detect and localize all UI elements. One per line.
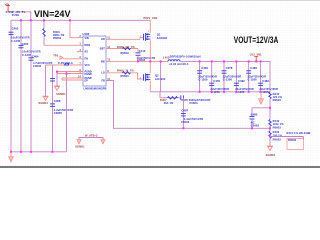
svg-text:C404: C404 xyxy=(32,55,39,59)
svg-text:C0805: C0805 xyxy=(54,111,63,115)
svg-text:C0603: C0603 xyxy=(33,64,42,68)
svg-text:C-1206: C-1206 xyxy=(11,39,21,43)
resistor RG2 xyxy=(123,72,131,74)
svg-text:C0603: C0603 xyxy=(189,101,198,105)
wire C470 to FB bus xyxy=(182,98,184,129)
resistor RBST xyxy=(123,47,131,49)
wire C404 column xyxy=(30,20,32,152)
top edge line xyxy=(0,0,320,2)
wire Q2 source xyxy=(149,81,151,92)
junction dots cap bank xyxy=(199,60,262,92)
svg-text:R0603: R0603 xyxy=(273,98,282,102)
svg-text:R441 1% HD-019B: R441 1% HD-019B xyxy=(287,131,311,135)
capacitor C404 xyxy=(29,58,34,60)
svg-text:Q2: Q2 xyxy=(155,73,159,77)
svg-text:EN: EN xyxy=(85,58,89,61)
svg-text:SS: SS xyxy=(85,50,89,53)
svg-text:R0603: R0603 xyxy=(121,74,130,78)
ground arrow left xyxy=(77,140,82,144)
svg-text:FB: FB xyxy=(101,79,105,82)
svg-text:SGND1: SGND1 xyxy=(75,145,85,149)
svg-text:LO: LO xyxy=(101,72,105,75)
wire SS stub pin4 xyxy=(77,51,83,53)
svg-text:C0603: C0603 xyxy=(251,124,260,128)
junction dots divider xyxy=(182,107,271,138)
capacitor C410 boot xyxy=(136,53,141,55)
svg-text:22uF/35V/X5R: 22uF/35V/X5R xyxy=(235,87,254,91)
svg-text:R0603: R0603 xyxy=(53,36,62,40)
svg-text:PGND: PGND xyxy=(85,73,92,76)
wire LO to Q2 gate xyxy=(106,73,143,79)
svg-text:C400: C400 xyxy=(201,66,208,70)
svg-text:U408: U408 xyxy=(83,32,90,36)
capacitor C480 xyxy=(251,108,253,117)
wire SW bus xyxy=(106,60,168,62)
svg-text:C406: C406 xyxy=(54,99,61,103)
wire PGND return column xyxy=(66,72,68,152)
resistor R407 xyxy=(168,97,178,99)
wire PGND bus xyxy=(150,91,270,93)
wire FB routing xyxy=(106,81,270,129)
resistor R403 (RON) xyxy=(43,20,45,28)
wire bottom-left ground bus xyxy=(11,151,67,153)
capacitor C400 xyxy=(197,71,202,73)
svg-text:Q1: Q1 xyxy=(157,32,161,36)
svg-text:R408_GR_TN: R408_GR_TN xyxy=(117,45,135,49)
ground SGND1 (divider) xyxy=(267,146,273,150)
svg-text:R408_34_TN: R408_34_TN xyxy=(117,68,134,72)
op-amp U408 controller xyxy=(83,36,106,86)
svg-text:AO4932: AO4932 xyxy=(157,36,168,40)
wire top VIN bus xyxy=(11,19,150,21)
svg-text:3.3nF/50V/X7R: 3.3nF/50V/X7R xyxy=(184,117,203,121)
svg-text:P24V_U4B: P24V_U4B xyxy=(144,16,158,20)
junction dots left xyxy=(56,71,68,75)
capacitor C479 xyxy=(209,83,214,85)
svg-text:C478: C478 xyxy=(226,66,233,70)
svg-text:C492: C492 xyxy=(238,79,245,83)
ground SGND (left low) xyxy=(43,96,49,100)
capacitor C408 bypass xyxy=(50,79,55,81)
wire Q1 drain xyxy=(149,20,151,33)
svg-text:VIN: VIN xyxy=(85,37,89,40)
svg-text:C-1206: C-1206 xyxy=(22,53,32,57)
pin numbers xyxy=(78,35,111,81)
wire VCC pin7 xyxy=(46,64,84,66)
wire cap columns xyxy=(200,61,261,91)
wire VCC drop to ground xyxy=(45,65,47,96)
svg-text:C479: C479 xyxy=(213,79,220,83)
wire net tie xyxy=(79,138,103,140)
capacitor C492 xyxy=(234,83,239,85)
power flag VIN xyxy=(6,6,10,12)
bottom border xyxy=(0,166,320,168)
capacitor C470 xyxy=(181,95,184,100)
svg-text:VIN=24V: VIN=24V xyxy=(34,9,71,20)
connector P404 load xyxy=(270,136,304,138)
resistor R432 xyxy=(269,131,271,138)
svg-text:HO: HO xyxy=(101,38,105,41)
svg-text:C405: C405 xyxy=(22,42,29,46)
capacitor C478 xyxy=(222,71,227,73)
svg-text:R0603: R0603 xyxy=(273,138,282,142)
svg-text:SGND1: SGND1 xyxy=(39,101,49,105)
transistor Q2 xyxy=(144,73,151,81)
svg-text:LM5085MX/NOPB: LM5085MX/NOPB xyxy=(84,87,107,91)
wire EP pins xyxy=(62,77,83,79)
capacitor C406 xyxy=(50,104,55,106)
resistor R442 xyxy=(269,92,271,99)
resistor R440 xyxy=(269,120,271,127)
fuse F442 xyxy=(8,11,28,13)
svg-text:C410: C410 xyxy=(139,49,146,53)
svg-text:VOUT=12V/3A: VOUT=12V/3A xyxy=(234,35,279,45)
wire VOUT bus xyxy=(180,60,270,62)
wire BST corner down xyxy=(137,49,139,53)
capacitor C403 xyxy=(9,32,14,34)
svg-text:U12_VBL: U12_VBL xyxy=(250,52,263,56)
svg-text:VCC: VCC xyxy=(85,64,90,67)
wire EN pin3 xyxy=(63,58,83,60)
wire Q1 source to SW xyxy=(149,40,151,61)
svg-text:SRP5030FA-100M/10uH: SRP5030FA-100M/10uH xyxy=(170,55,201,59)
svg-text:C-1206: C-1206 xyxy=(223,78,233,82)
svg-text:SGND1: SGND1 xyxy=(56,92,66,96)
wire C406 column xyxy=(52,65,54,152)
svg-text:EP: EP xyxy=(85,79,89,82)
svg-text:C403: C403 xyxy=(12,27,19,31)
transistor Q1 xyxy=(144,33,151,41)
svg-text:TP3: TP3 xyxy=(53,53,59,57)
ground arrow under PGND bus xyxy=(260,92,262,99)
svg-text:SGND1: SGND1 xyxy=(266,153,276,157)
svg-text:BST: BST xyxy=(100,47,105,50)
wire divider column xyxy=(269,61,271,92)
wire C403 column xyxy=(10,20,12,152)
svg-text:R0603: R0603 xyxy=(121,51,130,55)
wire Q2 drain xyxy=(149,61,151,73)
ground arrow bottom-left xyxy=(10,152,12,157)
wire PGND pins xyxy=(57,71,83,73)
wire BST xyxy=(106,48,138,50)
wire FB tap xyxy=(252,107,270,109)
svg-text:C487: C487 xyxy=(181,109,188,113)
svg-text:C-1206: C-1206 xyxy=(248,78,258,82)
capacitor C405 xyxy=(19,45,24,47)
svg-text:2.2uF/50V/X7R: 2.2uF/50V/X7R xyxy=(54,108,73,112)
wire HO to Q1 gate xyxy=(106,38,143,40)
svg-text:22uF/35V/X5R: 22uF/35V/X5R xyxy=(259,87,278,91)
pin labels inside xyxy=(85,37,106,83)
junction dots top bus xyxy=(20,19,71,21)
capacitor C481 xyxy=(246,71,251,73)
svg-text:VIN: VIN xyxy=(5,2,10,6)
svg-text:R432: R432 xyxy=(273,130,280,134)
wire ripple injection xyxy=(160,92,180,98)
svg-text:R0603: R0603 xyxy=(273,125,282,129)
wire VIN pin xyxy=(70,20,83,37)
svg-text:SW: SW xyxy=(101,60,106,63)
svg-text:RON: RON xyxy=(85,44,91,47)
ground SGND1 (mid) xyxy=(54,86,60,90)
junction dots SW xyxy=(137,60,162,62)
capacitor C487 xyxy=(181,114,186,116)
svg-text:C481: C481 xyxy=(250,66,257,70)
svg-text:W_ATB-G: W_ATB-G xyxy=(85,134,98,138)
wire C405 column xyxy=(20,20,22,152)
svg-text:C0603: C0603 xyxy=(181,120,190,124)
ground arrow right xyxy=(101,140,106,144)
svg-text:+0.43 m/3.08 A: +0.43 m/3.08 A xyxy=(169,62,189,66)
svg-text:C-1206: C-1206 xyxy=(198,78,208,82)
capacitor C482 xyxy=(258,83,263,85)
svg-text:2k4 1%: 2k4 1% xyxy=(164,101,174,105)
svg-text:22uF/35V/X5R: 22uF/35V/X5R xyxy=(211,87,230,91)
wire fuse to bus xyxy=(28,12,31,20)
wire sense drop xyxy=(160,61,162,91)
svg-text:C470: C470 xyxy=(181,98,188,102)
svg-text:C482: C482 xyxy=(262,79,269,83)
svg-text:FUSE: FUSE xyxy=(12,13,20,17)
svg-text:C480: C480 xyxy=(251,112,258,116)
